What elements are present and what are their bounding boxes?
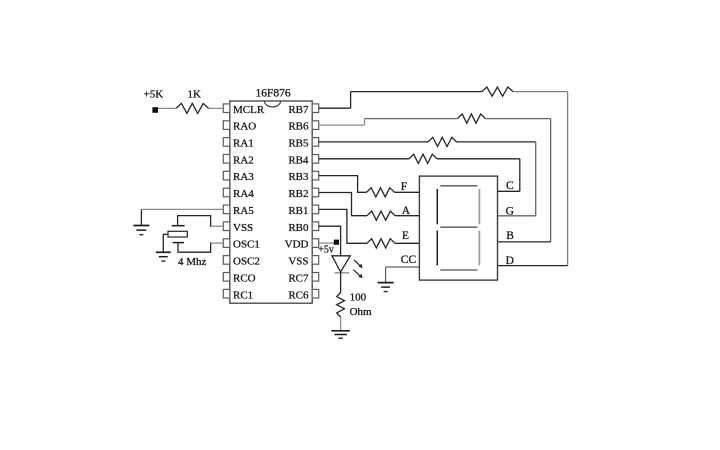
svg-text:RB5: RB5 <box>288 138 309 150</box>
svg-text:+5K: +5K <box>144 88 164 100</box>
svg-text:RB3: RB3 <box>288 171 309 183</box>
svg-text:OSC1: OSC1 <box>233 239 260 251</box>
svg-text:VSS: VSS <box>233 222 253 234</box>
svg-text:RC7: RC7 <box>288 272 309 284</box>
svg-text:E: E <box>402 230 409 242</box>
svg-text:RA5: RA5 <box>233 205 254 217</box>
svg-text:4 Mhz: 4 Mhz <box>178 256 207 268</box>
svg-text:RA1: RA1 <box>233 138 254 150</box>
svg-text:RAO: RAO <box>233 121 256 133</box>
svg-text:+5v: +5v <box>318 244 334 255</box>
svg-text:G: G <box>506 205 514 217</box>
svg-text:D: D <box>506 255 514 267</box>
svg-text:VSS: VSS <box>288 256 308 268</box>
svg-text:F: F <box>401 181 407 193</box>
svg-text:C: C <box>506 180 514 192</box>
svg-text:RC1: RC1 <box>233 289 253 301</box>
svg-text:RB4: RB4 <box>288 154 309 166</box>
svg-text:Ohm: Ohm <box>350 306 372 318</box>
svg-text:B: B <box>506 230 514 242</box>
svg-text:16F876: 16F876 <box>256 87 291 99</box>
svg-text:A: A <box>402 205 411 217</box>
svg-text:1K: 1K <box>188 89 202 101</box>
svg-text:MCLR: MCLR <box>233 104 265 116</box>
svg-text:RA2: RA2 <box>233 154 254 166</box>
svg-text:RB7: RB7 <box>288 104 309 116</box>
svg-text:RC6: RC6 <box>288 289 309 301</box>
svg-text:RCO: RCO <box>233 272 256 284</box>
svg-text:RB1: RB1 <box>288 205 308 217</box>
svg-text:RB0: RB0 <box>288 222 309 234</box>
svg-text:VDD: VDD <box>285 239 309 251</box>
svg-text:100: 100 <box>350 292 367 304</box>
svg-text:RA4: RA4 <box>233 188 254 200</box>
svg-text:RB2: RB2 <box>288 188 308 200</box>
svg-text:OSC2: OSC2 <box>233 256 260 268</box>
svg-text:CC: CC <box>401 254 417 266</box>
svg-text:RB6: RB6 <box>288 121 309 133</box>
svg-text:RA3: RA3 <box>233 171 254 183</box>
